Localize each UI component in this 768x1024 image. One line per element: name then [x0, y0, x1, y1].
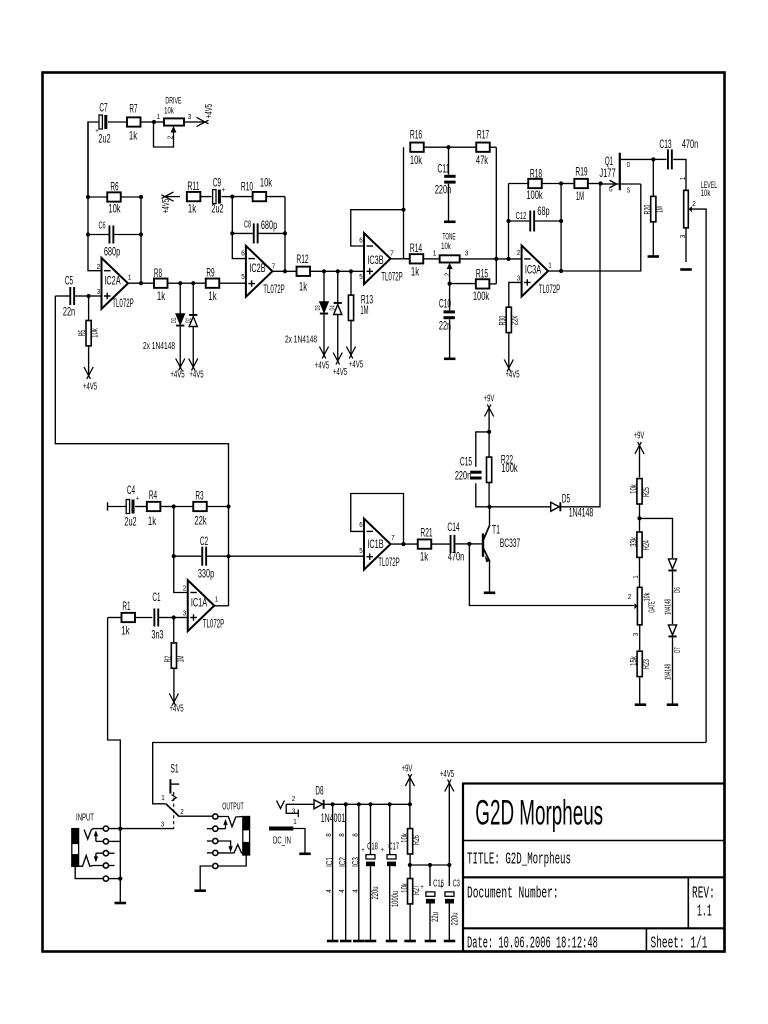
wire R4-R3 [174, 506, 194, 508]
svg-text:2: 2 [692, 201, 696, 208]
svg-text:10k: 10k [410, 153, 423, 167]
capacitor C1 [153, 609, 173, 627]
svg-text:T1: T1 [492, 522, 500, 536]
potentiometer TONE [440, 255, 497, 283]
svg-text:+: + [222, 187, 226, 194]
ground below R20 [648, 255, 660, 258]
svg-text:IC2B: IC2B [249, 261, 265, 275]
capacitor C6 [88, 226, 141, 244]
svg-text:1: 1 [128, 274, 132, 281]
svg-text:R11: R11 [187, 179, 199, 193]
resistor R15 [476, 279, 496, 288]
junction R7-DRIVE [152, 120, 156, 124]
resistor R17 [476, 143, 496, 152]
svg-text:R9: R9 [206, 265, 214, 279]
svg-text:1: 1 [680, 177, 687, 181]
diode D8 [314, 800, 410, 809]
diode D6 [668, 559, 676, 624]
input jack INPUT [72, 826, 174, 881]
resistor R9 [206, 279, 246, 288]
wire feedback column x403 [403, 147, 405, 259]
wire IC3A pin3 [509, 282, 522, 307]
capacitor C17 [387, 804, 396, 940]
svg-text:R26: R26 [411, 835, 422, 845]
junction R6 right [139, 195, 143, 199]
wire IC3A pin2 [496, 258, 521, 260]
svg-text:2: 2 [292, 796, 296, 803]
junction IC3A pin2 b [506, 257, 510, 261]
plus mark IC2A [104, 293, 111, 299]
svg-text:IC1B: IC1B [367, 537, 383, 551]
svg-text:5: 5 [359, 548, 363, 555]
svg-text:1k: 1k [420, 549, 429, 563]
svg-text:+: + [420, 884, 424, 891]
svg-text:G2D Morpheus: G2D Morpheus [475, 793, 603, 833]
resistor R16 [410, 143, 448, 152]
supply +4V5 above C3 [448, 784, 450, 865]
resistor R6 [88, 192, 141, 201]
junction R26 top [408, 802, 412, 806]
svg-text:TL072P: TL072P [381, 272, 403, 284]
svg-text:J177: J177 [599, 166, 615, 180]
junction IC2A plus input [87, 294, 91, 298]
svg-text:C18: C18 [367, 841, 378, 853]
wire D4-R13 [338, 270, 351, 272]
svg-text:R16: R16 [410, 127, 422, 141]
svg-text:R7: R7 [129, 101, 137, 115]
svg-text:1k: 1k [188, 201, 197, 215]
svg-text:680p: 680p [261, 218, 277, 232]
svg-text:2x 1N4148: 2x 1N4148 [143, 340, 175, 352]
svg-text:DC_IN: DC_IN [273, 835, 291, 847]
junction T1 collector node [487, 505, 491, 509]
potentiometer GATE [634, 587, 642, 625]
svg-text:IC2A: IC2A [104, 273, 120, 287]
junction C17 top [388, 802, 392, 806]
svg-text:IC3B: IC3B [367, 253, 383, 267]
resistor R4 [147, 502, 174, 511]
svg-text:3: 3 [188, 114, 192, 121]
svg-text:1: 1 [161, 795, 165, 802]
wire into T1 base [469, 543, 481, 545]
svg-text:1N4148: 1N4148 [663, 664, 672, 681]
ground below DC_IN [299, 853, 311, 856]
svg-text:R30: R30 [497, 316, 508, 326]
junction C16 top [428, 863, 432, 867]
resistor R11 [187, 192, 212, 201]
svg-text:1N4148: 1N4148 [663, 599, 672, 616]
wire T1 base to gate pot [469, 544, 634, 606]
svg-text:15k: 15k [629, 656, 640, 666]
svg-text:R1: R1 [122, 599, 130, 613]
power pin line IC2 [344, 802, 348, 940]
svg-text:1M: 1M [175, 656, 186, 663]
ground below IC1 [327, 940, 339, 943]
wire IC2A output [128, 282, 155, 284]
junction R25 bottom [637, 516, 641, 520]
ground below input jack [115, 902, 127, 905]
minus mark IC3A [524, 258, 531, 260]
wire R17 down to tone node [495, 147, 497, 284]
svg-text:S: S [627, 187, 631, 194]
svg-text:1k: 1k [129, 128, 138, 142]
junction IC2B output [283, 269, 287, 273]
junction D3 [322, 269, 326, 273]
potentiometer DRIVE [154, 118, 185, 147]
capacitor C11 [444, 147, 455, 221]
svg-text:R2: R2 [163, 656, 174, 663]
junction C6 left [86, 232, 90, 236]
resistor R24 [637, 532, 642, 587]
svg-text:220n: 220n [455, 468, 471, 482]
svg-text:+4V5: +4V5 [349, 359, 363, 371]
svg-text:2x 1N4148: 2x 1N4148 [285, 334, 317, 346]
svg-text:R20: R20 [642, 205, 653, 215]
svg-text:2: 2 [180, 809, 184, 816]
svg-text:4: 4 [352, 889, 359, 893]
resistor R30 [506, 307, 511, 357]
wire C2 node to IC1B plus [229, 555, 365, 557]
svg-text:REV:: REV: [692, 883, 715, 902]
svg-text:C8: C8 [244, 219, 251, 231]
resistor R25 [637, 479, 642, 533]
capacitor C13 [653, 149, 686, 190]
junction C1-R2 [172, 615, 176, 619]
wire IC2B output to R12 [272, 270, 296, 272]
svg-text:+9V: +9V [402, 763, 413, 775]
svg-text:2: 2 [444, 273, 451, 277]
svg-text:TL072P: TL072P [112, 298, 134, 310]
svg-text:22n: 22n [439, 318, 451, 332]
svg-text:3: 3 [680, 235, 687, 239]
supply +4V5 below D1 [179, 356, 181, 366]
wire pin2 column [174, 507, 188, 593]
supply +4V5 below D4 [337, 344, 339, 360]
svg-text:2: 2 [167, 136, 174, 140]
svg-text:R5: R5 [77, 330, 88, 337]
junction C8 left [230, 231, 234, 235]
svg-text:S1: S1 [170, 761, 178, 775]
svg-text:R19: R19 [575, 164, 587, 178]
wire R7 to DRIVE [154, 121, 164, 123]
op-amp IC1B [364, 519, 391, 570]
svg-text:1: 1 [548, 262, 552, 269]
svg-text:+4V5: +4V5 [170, 369, 184, 381]
svg-text:D: D [627, 162, 631, 169]
svg-text:2: 2 [97, 264, 101, 271]
junction IC1B output [401, 542, 405, 546]
svg-text:680p: 680p [104, 244, 120, 258]
resistor R20 [651, 159, 656, 255]
diode D7 [668, 625, 676, 704]
ground below T1 [484, 592, 496, 595]
svg-text:C4: C4 [127, 483, 135, 497]
wire wiper to R15 [450, 283, 476, 285]
svg-text:1M: 1M [655, 206, 666, 213]
svg-text:G: G [609, 186, 613, 193]
junction input tip [118, 827, 122, 831]
svg-text:68p: 68p [537, 204, 549, 218]
capacitor C10 [444, 284, 455, 359]
minus mark IC2A [104, 270, 111, 272]
svg-text:TL072P: TL072P [203, 619, 225, 631]
svg-text:D5: D5 [562, 491, 570, 505]
wire R8-R9 [180, 282, 193, 284]
op-amp IC3A [522, 246, 549, 297]
svg-text:22n: 22n [63, 304, 75, 318]
capacitor C3 [445, 865, 454, 940]
svg-text:100k: 100k [526, 188, 543, 202]
svg-text:D7: D7 [673, 647, 682, 653]
svg-text:5: 5 [359, 274, 363, 281]
svg-text:C2: C2 [200, 534, 208, 548]
wire bypass return line [153, 743, 706, 804]
junction C11 top [446, 145, 450, 149]
junction R3 right [226, 504, 230, 508]
junction C2 right [226, 554, 230, 558]
svg-text:TITLE: G2D_Morpheus: TITLE: G2D_Morpheus [467, 849, 571, 868]
wire IC1B feedback [351, 494, 404, 545]
svg-text:10k: 10k [90, 328, 101, 338]
ground below C16 [425, 940, 437, 943]
svg-text:+9V: +9V [484, 393, 495, 405]
svg-text:2u2: 2u2 [98, 131, 110, 145]
svg-text:D8: D8 [315, 783, 323, 797]
wire IC1B output [391, 543, 418, 545]
minus mark IC1A [190, 592, 197, 594]
wire to D6 column [640, 518, 673, 558]
junction R4-R3 [172, 504, 176, 508]
svg-text:R4: R4 [149, 488, 157, 502]
svg-text:C3: C3 [453, 878, 460, 890]
resistor R12 [297, 267, 324, 276]
svg-text:R10: R10 [241, 179, 253, 193]
svg-text:+: + [361, 847, 365, 854]
ground below D7 [667, 703, 679, 706]
plus mark IC3B [367, 268, 374, 274]
svg-text:D1: D1 [169, 318, 178, 323]
plus mark IC1A [190, 614, 197, 620]
svg-text:1: 1 [433, 250, 437, 257]
junction IC2A output [139, 281, 143, 285]
junction TONE pin3 net [494, 257, 498, 261]
svg-text:1: 1 [215, 596, 219, 603]
svg-text:10k: 10k [108, 201, 121, 215]
svg-text:D4: D4 [327, 305, 336, 310]
junction IC3A output [559, 269, 563, 273]
supply +9V above R25 [639, 447, 641, 478]
svg-text:4: 4 [339, 889, 346, 893]
svg-text:1.1: 1.1 [697, 901, 712, 920]
svg-text:220u: 220u [370, 887, 381, 900]
svg-text:TL072P: TL072P [539, 284, 561, 296]
plus mark IC2B [248, 280, 255, 286]
svg-text:1k: 1k [299, 279, 308, 293]
svg-text:R21: R21 [420, 525, 432, 539]
power pin line IC3 [357, 802, 361, 940]
wire C8 left column [232, 197, 246, 259]
junction Q1 drain node [651, 157, 655, 161]
svg-text:10k: 10k [400, 833, 411, 843]
svg-text:3: 3 [633, 633, 640, 637]
wire node x88 feedback column [88, 122, 102, 271]
wire R18 C12 left column [508, 184, 510, 259]
svg-text:8: 8 [339, 833, 346, 837]
svg-text:8: 8 [352, 833, 359, 837]
svg-text:2: 2 [628, 594, 632, 601]
svg-text:6: 6 [359, 237, 363, 244]
ground below R23 [635, 703, 647, 706]
svg-text:7: 7 [391, 535, 395, 542]
wire half-supply rail [410, 864, 449, 866]
svg-text:3: 3 [183, 610, 187, 617]
resistor R21 [418, 539, 450, 548]
svg-text:7: 7 [272, 263, 276, 270]
wire to D5 [490, 506, 551, 508]
svg-text:D3: D3 [313, 305, 322, 310]
svg-text:2: 2 [517, 250, 521, 257]
capacitor C7 [99, 115, 128, 129]
junction C12 right [559, 219, 563, 223]
junction R6 left [86, 195, 90, 199]
svg-text:2u2: 2u2 [124, 514, 136, 528]
resistor R7 [127, 117, 154, 126]
supply +4V5 below D3 [323, 344, 325, 354]
svg-text:OUTPUT: OUTPUT [222, 801, 244, 813]
capacitor C15 [470, 471, 489, 507]
wire IC3A output [548, 270, 561, 272]
ground below output jack [194, 889, 206, 892]
junction R18 right [559, 181, 563, 185]
svg-text:C10: C10 [439, 296, 451, 310]
minus mark IC3B [367, 245, 374, 247]
junction R22 top [487, 430, 491, 434]
svg-text:2: 2 [183, 585, 187, 592]
wire input tip-sleeve link [119, 829, 121, 903]
op-amp IC1A [188, 580, 215, 631]
wire to R9 [193, 282, 206, 284]
svg-text:C14: C14 [447, 520, 459, 534]
svg-text:R12: R12 [296, 252, 308, 266]
capacitor C18 [366, 804, 375, 940]
diode D5 [551, 184, 600, 511]
ground below C18 [365, 940, 377, 943]
svg-text:+: + [381, 847, 385, 854]
svg-text:C1: C1 [152, 590, 160, 604]
svg-text:220n: 220n [435, 182, 451, 196]
svg-text:R25: R25 [641, 487, 652, 497]
wire IC3B output [391, 258, 411, 260]
capacitor C2 [174, 547, 229, 566]
svg-text:10k: 10k [701, 188, 711, 199]
minus mark IC1B [367, 530, 374, 532]
svg-text:+4V5: +4V5 [83, 381, 97, 393]
svg-text:100k: 100k [473, 289, 490, 303]
svg-text:R18: R18 [530, 166, 542, 180]
svg-text:1: 1 [633, 575, 640, 579]
junction D4 [336, 269, 340, 273]
resistor R26 [408, 804, 413, 865]
wire C15 branch top [476, 432, 489, 467]
switch S1 [166, 779, 216, 829]
svg-text:33k: 33k [628, 537, 639, 547]
svg-text:Date: 10.06.2006 18:12:48: Date: 10.06.2006 18:12:48 [467, 933, 598, 952]
svg-text:GATE: GATE [647, 601, 657, 613]
svg-text:Document Number:: Document Number: [467, 883, 559, 902]
svg-text:7: 7 [390, 250, 394, 257]
wire R10/C8 right column [284, 197, 286, 272]
svg-text:10k: 10k [164, 105, 174, 116]
svg-text:C15: C15 [460, 454, 472, 468]
svg-text:1N4148: 1N4148 [569, 505, 594, 519]
junction D2 [191, 281, 195, 285]
wire R18/C12 right column [560, 184, 562, 272]
svg-text:+4V5: +4V5 [189, 369, 203, 381]
transistor T1 BC337 [482, 507, 490, 592]
supply +4V5 below D2 [192, 356, 194, 366]
ground below R27 [404, 940, 416, 943]
wire IC3B feedback [351, 210, 404, 246]
ground below C3 [444, 940, 456, 943]
svg-text:3n3: 3n3 [151, 627, 163, 641]
wire D3-D4 [324, 270, 338, 272]
junction R13 top [349, 269, 353, 273]
svg-text:220u: 220u [450, 913, 461, 926]
svg-text:IC1: IC1 [324, 857, 335, 867]
resistor R22 [487, 432, 492, 507]
svg-text:+4V5: +4V5 [160, 199, 172, 213]
svg-text:10k: 10k [628, 484, 639, 494]
junction C2 left [172, 554, 176, 558]
supply +9V power rail [409, 779, 411, 805]
capacitor C5 [55, 287, 88, 305]
svg-text:TL072P: TL072P [263, 284, 285, 296]
svg-text:R17: R17 [477, 127, 489, 141]
junction C12 left [506, 219, 510, 223]
svg-text:10k: 10k [400, 883, 411, 893]
resistor R23 [637, 625, 642, 704]
diode D1 [176, 283, 184, 356]
svg-text:C13: C13 [659, 137, 671, 151]
svg-text:INPUT: INPUT [76, 812, 94, 824]
svg-text:22u: 22u [430, 912, 441, 922]
svg-text:10k: 10k [441, 241, 451, 252]
supply +4V5 below R5 [88, 346, 90, 375]
diode D4 [334, 271, 342, 344]
junction C3 top [447, 863, 451, 867]
svg-text:R8: R8 [154, 266, 162, 280]
junction R27 top [408, 863, 412, 867]
diode D2 [189, 283, 197, 356]
svg-text:470n: 470n [682, 137, 698, 151]
resistor R19 [561, 179, 601, 188]
wire into IC1A pin3 [174, 617, 188, 619]
svg-text:330p: 330p [198, 566, 214, 580]
svg-text:+4V5: +4V5 [315, 360, 329, 372]
capacitor C14 [450, 535, 470, 553]
svg-text:1k: 1k [411, 264, 420, 278]
ground below IC2 [340, 940, 352, 943]
svg-text:4: 4 [326, 889, 333, 893]
resistor R1 [108, 613, 153, 622]
svg-text:R15: R15 [476, 266, 488, 280]
svg-text:6: 6 [241, 250, 245, 257]
resistor R14 [404, 254, 440, 263]
junction C18 top [368, 802, 372, 806]
ground below C10 [444, 358, 456, 361]
svg-text:3: 3 [292, 808, 296, 815]
svg-text:1M: 1M [576, 189, 584, 203]
